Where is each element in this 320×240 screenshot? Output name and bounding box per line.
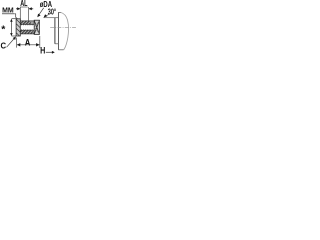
AL underline: [20, 6, 28, 8]
30 deg angled reference line: [44, 13, 51, 17]
svg-text:C: C: [1, 40, 7, 50]
end block X diagonals: [34, 20, 39, 34]
MM leader wire: [14, 14, 22, 23]
star dim: arrow down: [10, 33, 13, 36]
MM underline: [2, 13, 14, 15]
A dim: extension line right: [39, 36, 41, 48]
A dim: extension line left: [16, 38, 18, 48]
star dim: arrow up: [10, 19, 13, 22]
side view: flange face line: [57, 12, 59, 49]
øDA leader arrowhead: [37, 14, 40, 18]
H dim line + arrow: [46, 51, 54, 53]
svg-text:H: H: [40, 45, 45, 55]
side view: bottom step: [55, 43, 59, 45]
AL extension line right: [28, 7, 30, 21]
AL extension line left: [19, 7, 21, 21]
star dim: vertical line: [10, 19, 12, 35]
A dim arrow left: [17, 43, 21, 46]
AL dim line right segment + arrow: [29, 8, 33, 10]
side view: top edge: [58, 11, 61, 13]
C leader arrowhead: [13, 37, 16, 41]
thread teeth bottom: [21, 29, 34, 30]
A dim line: [17, 44, 39, 46]
thread teeth top: [21, 24, 34, 25]
AL dim line left segment + arrow: [16, 8, 20, 10]
side view: left face line: [54, 18, 56, 44]
section view: body top wall (hatched): [20, 21, 34, 24]
section view: closed end block (knurl X): [34, 20, 39, 34]
30 deg arrowhead: [44, 14, 48, 17]
flange hatch: [12, 11, 24, 41]
MM leader arrowhead: [20, 21, 24, 25]
A dim arrow right: [36, 43, 40, 46]
star dim: extension tick top: [12, 18, 17, 20]
svg-text:A: A: [25, 37, 31, 47]
30 deg horizontal reference line: [44, 17, 59, 19]
øDA leader wire: [39, 8, 44, 15]
side view: bottom edge: [58, 49, 63, 51]
C leader wire: [7, 37, 16, 47]
section view: body bottom wall (hatched): [20, 30, 34, 34]
star dim: extension tick bottom: [12, 35, 17, 37]
side view: curved silhouette: [61, 13, 69, 50]
side view: axis centerline: [50, 26, 76, 28]
svg-text:30°: 30°: [48, 7, 56, 16]
section view: flange (head): [16, 19, 20, 36]
